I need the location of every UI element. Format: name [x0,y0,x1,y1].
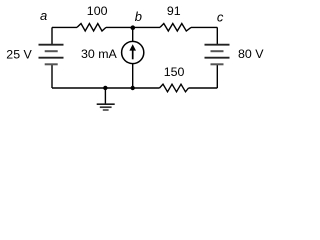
svg-text:c: c [217,9,224,24]
wire top rail from node a corner to R1 [52,26,77,28]
wire bottom rail from R3 to V2 [189,87,218,89]
wire bottom rail from V1 to R3 [52,87,160,89]
node b junction dot [131,25,136,30]
svg-text:150: 150 [164,65,185,79]
current source I1 arrow head [129,44,136,50]
battery V1 long plate lower [39,57,64,59]
wire top rail from node b to R2 [133,26,160,28]
ground bar 1 [97,103,115,105]
ground bar 2 [100,106,112,108]
svg-text:80 V: 80 V [238,47,264,61]
battery V2 short plate upper (gray) [211,50,224,52]
ground bar 3 [103,109,109,111]
junction dot current source bottom on rail [131,86,135,90]
resistor R2 91 ohm zigzag [160,24,191,32]
current source I1 circle [122,41,144,63]
svg-text:a: a [40,8,47,23]
ground stem wire [104,88,106,104]
wire left vertical from corner down to battery V1 [51,27,53,44]
current source I1 arrow shaft [132,50,134,60]
svg-text:100: 100 [87,4,108,18]
wire right vertical from corner down to battery V2 [216,27,218,44]
wire from node b down to current source I1 [132,27,134,41]
battery V1 short plate upper (gray) [45,50,58,52]
wire from current source I1 down to bottom rail [132,63,134,88]
battery V1 25 V long plate top [39,44,64,46]
wire left vertical from battery V1 to bottom rail [51,65,53,88]
battery V1 short plate bottom (gray) [45,63,58,65]
battery V2 long plate lower [205,57,230,59]
junction dot ground tap on bottom rail [103,86,107,90]
wire top rail from R2 to top-right corner [191,26,217,28]
svg-text:30 mA: 30 mA [81,47,118,61]
battery V2 short plate bottom (gray) [211,63,224,65]
resistor R3 150 ohm zigzag [160,84,189,92]
battery V2 80 V long plate top [205,44,230,46]
wire top rail from R1 to node b [106,26,133,28]
svg-text:25 V: 25 V [6,47,32,61]
svg-text:91: 91 [167,4,181,18]
resistor R1 100 ohm zigzag [77,24,106,32]
svg-text:b: b [135,9,142,24]
wire right vertical from battery V2 to bottom rail [216,65,218,88]
